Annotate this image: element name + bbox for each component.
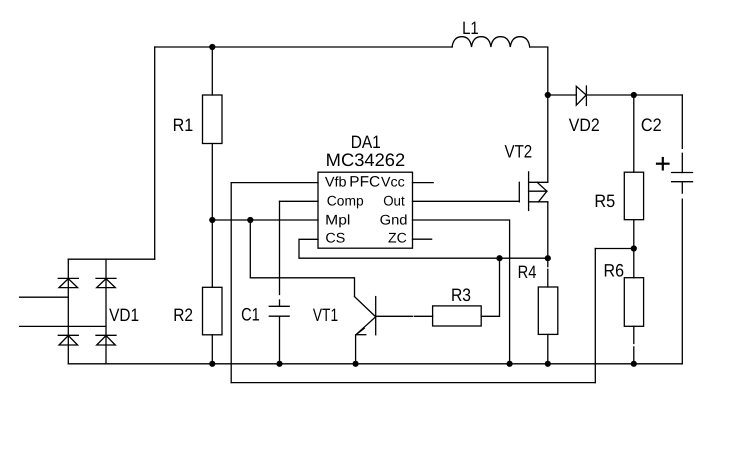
wire AC input lower — [20, 325, 106, 327]
wire R4 bottom lead — [547, 334, 549, 363]
transistor Q2 VT2 MOSFET — [519, 172, 548, 211]
wire R6 bottom lead — [633, 326, 635, 364]
node junction Mpl R1 R2 — [209, 217, 215, 223]
wire feedback vertical — [594, 249, 596, 383]
svg-text:L1: L1 — [462, 18, 479, 38]
svg-text:Gnd: Gnd — [380, 212, 408, 228]
svg-text:Vfb: Vfb — [325, 174, 347, 190]
wire VD2 right — [586, 94, 633, 96]
wire VT2 source vertical — [547, 202, 549, 258]
node junction rail VT1 — [353, 361, 359, 367]
svg-text:C2: C2 — [641, 115, 662, 135]
wire R5 bottom lead — [633, 220, 635, 249]
wire VT1 base lead — [376, 315, 433, 317]
wire to C2 top — [634, 94, 683, 96]
svg-text:C1: C1 — [241, 304, 260, 324]
wire feedback to divider — [595, 248, 634, 250]
diode VD1 top-left — [58, 278, 78, 287]
svg-text:Vcc: Vcc — [381, 174, 405, 190]
wire C1 bottom lead — [279, 316, 281, 364]
wire left vertical from top rail to bridge — [154, 47, 156, 259]
diode VD1 top-right — [96, 278, 116, 287]
wire C2 bottom lead — [681, 182, 683, 364]
svg-text:ZC: ZC — [388, 230, 407, 246]
wire C2 top lead — [681, 95, 683, 173]
wire Vfb vertical — [230, 183, 232, 383]
svg-text:Mpl: Mpl — [325, 212, 350, 228]
wire bridge right leg — [105, 259, 107, 364]
node junction rail Gnd — [507, 361, 513, 367]
svg-text:PFC: PFC — [349, 174, 380, 191]
wire bridge top — [68, 258, 154, 260]
wire bridge left leg — [67, 259, 69, 364]
node junction top rail R1 — [209, 44, 215, 50]
wire Vcc stub — [413, 182, 434, 184]
wire R4 top lead — [547, 258, 549, 287]
node junction rail R6 — [631, 361, 637, 367]
wire Mpl to VT1 collector — [250, 220, 354, 297]
diode VD1 bottom-right — [96, 335, 116, 345]
resistor R6 — [624, 278, 643, 327]
svg-text:R6: R6 — [604, 261, 625, 281]
wire VT2 drain vertical — [547, 95, 549, 182]
plus sign of C2 — [657, 158, 669, 169]
svg-text:VD1: VD1 — [109, 305, 139, 325]
node junction Mpl VT1 — [247, 217, 253, 223]
wire R3 right lead — [481, 258, 499, 316]
wire VT1 emitter lead — [355, 335, 357, 364]
capacitor C1 — [269, 306, 289, 316]
wire R1 top lead — [211, 47, 213, 95]
wire R6 top lead — [633, 249, 635, 278]
wire bottom rail — [68, 363, 682, 365]
svg-text:DA1: DA1 — [351, 132, 381, 152]
resistor R4 — [538, 287, 558, 334]
resistor R3 — [433, 306, 482, 326]
wire R5 top lead — [633, 95, 635, 172]
wire Mpl pin — [212, 219, 318, 221]
svg-text:VD2: VD2 — [569, 115, 600, 135]
wire Out pin to gate — [413, 200, 520, 202]
node junction CS R4 — [545, 255, 551, 261]
svg-text:VT2: VT2 — [505, 142, 533, 162]
svg-text:R3: R3 — [451, 285, 471, 305]
resistor R1 — [203, 95, 223, 144]
wire VD2 left — [548, 94, 577, 96]
svg-text:VT1: VT1 — [313, 305, 338, 325]
resistor R5 — [624, 172, 643, 220]
node junction L1 VD2 — [545, 92, 551, 98]
wire CS pin — [299, 239, 548, 258]
wire Comp pin — [280, 200, 319, 202]
node junction rail R4 — [545, 361, 551, 367]
diode VD1 bottom-left — [58, 335, 78, 345]
inductor L1 — [452, 37, 530, 47]
transistor Q1 VT1 — [355, 297, 376, 335]
node junction R5 R6 — [631, 245, 637, 251]
svg-text:MC34262: MC34262 — [326, 150, 406, 170]
svg-text:R2: R2 — [173, 305, 193, 325]
capacitor C2 — [672, 173, 693, 182]
node junction rail R2 — [209, 361, 215, 367]
wire ZC stub — [413, 238, 432, 240]
wire C1 top lead — [279, 201, 281, 306]
svg-text:Out: Out — [383, 192, 405, 208]
op-amp U1 IC box DA1 — [318, 172, 413, 248]
svg-text:R1: R1 — [173, 115, 194, 135]
wire R2 bottom lead — [211, 335, 213, 364]
resistor R2 — [203, 287, 223, 335]
wire Vfb pin — [231, 182, 318, 184]
svg-text:Comp: Comp — [327, 192, 364, 208]
wire top rail left — [155, 46, 452, 48]
node junction rail C1 — [276, 361, 282, 367]
node junction VD2 R5 — [631, 92, 637, 98]
wire L1 to corner — [530, 47, 548, 95]
wire Vfb bottom horizontal — [231, 382, 595, 384]
diode VD2 — [576, 86, 586, 106]
wire AC input upper — [20, 296, 69, 298]
wire R1 to R2 — [211, 144, 213, 288]
node junction CS R3 — [496, 255, 502, 261]
svg-text:R5: R5 — [594, 191, 615, 211]
svg-text:CS: CS — [325, 230, 345, 246]
wire Gnd pin — [413, 220, 510, 364]
svg-text:R4: R4 — [518, 262, 537, 282]
